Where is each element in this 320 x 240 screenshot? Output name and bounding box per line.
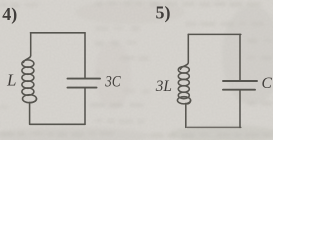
wire top 1 xyxy=(31,32,86,34)
grain texture xyxy=(0,0,273,140)
wire left-bottom 2 xyxy=(185,104,187,128)
inductor L1 coil xyxy=(22,56,37,103)
capacitor C plates xyxy=(223,80,257,82)
paper background xyxy=(0,0,273,140)
svg-text:3C: 3C xyxy=(104,73,121,90)
svg-text:C: C xyxy=(262,75,273,92)
wire left-top 2 xyxy=(187,34,189,62)
capacitor 3C plates xyxy=(68,78,101,80)
svg-text:5): 5) xyxy=(156,2,171,23)
ghost show-through text rows xyxy=(0,2,272,138)
svg-text:4): 4) xyxy=(2,4,17,25)
svg-text:L: L xyxy=(6,70,16,89)
inductor 3L coil xyxy=(177,63,190,104)
wire right-top 1 (into cap) xyxy=(84,33,86,78)
background mottling xyxy=(0,0,282,145)
wire top 2 xyxy=(188,33,241,35)
wire right-top 2 xyxy=(239,34,241,80)
wire bottom 1 xyxy=(30,123,85,125)
svg-text:3L: 3L xyxy=(155,78,172,95)
wire bottom 2 xyxy=(187,126,241,128)
wire left-top 1 (into coil) xyxy=(30,33,32,56)
wire left-bottom 1 (out of coil) xyxy=(29,103,31,125)
wire right-bottom 2 xyxy=(239,91,241,128)
wire right-bottom 1 xyxy=(84,89,86,125)
